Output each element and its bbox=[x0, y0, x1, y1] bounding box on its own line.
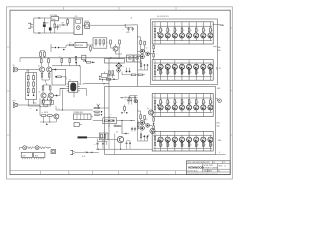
connector J5 input R jack bbox=[13, 103, 15, 108]
resistor aR3 bbox=[174, 26, 176, 28]
wire dD4 to bus bbox=[181, 135, 183, 137]
resistor dR7 bbox=[202, 142, 204, 148]
wire dD1 to bus bbox=[160, 135, 162, 137]
wire VR1 out b bbox=[33, 99, 35, 103]
resistor R30 bbox=[140, 41, 142, 45]
junction inner b bbox=[121, 97, 122, 98]
wire VR1 tap top a bbox=[27, 69, 29, 76]
svg-text:N2: N2 bbox=[219, 68, 221, 70]
LED cD8 bbox=[209, 104, 211, 105]
resistor R13 emitter bbox=[50, 98, 52, 99]
wire bm vertical bbox=[108, 135, 110, 149]
wire bD3 to bus bbox=[174, 63, 176, 64]
wire mid rail 2 bbox=[52, 65, 80, 67]
svg-text:IC4: IC4 bbox=[110, 114, 112, 116]
wire R57 stub bbox=[124, 105, 126, 107]
wire bD7 to bus bbox=[202, 63, 204, 64]
wire bD1 to bus bbox=[160, 63, 162, 64]
LED cD3 bbox=[174, 104, 176, 105]
resistor R57 bbox=[124, 107, 126, 111]
svg-text:IN L: IN L bbox=[13, 65, 16, 67]
connector J3 pin circle bbox=[86, 24, 89, 27]
cathode bus band C bbox=[153, 112, 212, 114]
svg-text:CN1: CN1 bbox=[75, 16, 78, 18]
capacitor C36 bbox=[55, 47, 57, 49]
wire band C top stub 4 bbox=[181, 94, 183, 99]
resistor aR5 bbox=[188, 26, 190, 28]
connector J4 input L jack bbox=[13, 67, 15, 72]
revision strip divider 2 bbox=[68, 171, 70, 175]
LED bD5 bbox=[188, 68, 190, 71]
capacitor C14 bbox=[134, 127, 136, 128]
LED dD5 bbox=[188, 141, 190, 143]
resistor dR3 bbox=[174, 142, 176, 148]
wire CN3 bbox=[215, 97, 217, 99]
capacitor C29 bbox=[144, 64, 146, 66]
capacitor C24 bbox=[92, 62, 94, 64]
wire B2 stub bbox=[104, 72, 106, 74]
capacitor dC1 bbox=[157, 140, 159, 142]
capacitor C18 bbox=[129, 141, 131, 143]
resistor R6 bbox=[48, 58, 50, 59]
frame zone tick left 1 bbox=[7, 46, 10, 48]
LED cD7 bbox=[202, 104, 204, 105]
LED dD1 bbox=[160, 141, 162, 143]
wire rail x122 bbox=[121, 121, 123, 134]
resistor aR1 bbox=[160, 26, 162, 28]
small block TB2 bbox=[74, 123, 79, 127]
wire band D bottom stub 1 bbox=[160, 148, 162, 151]
capacitor C27 bbox=[127, 98, 129, 100]
LED aD4 bbox=[181, 32, 183, 33]
svg-text:IC2: IC2 bbox=[69, 80, 71, 82]
wire caps row bbox=[51, 47, 55, 49]
junction bm3 bbox=[120, 126, 121, 127]
resistor R11 bbox=[49, 85, 51, 86]
wire VR2 down bbox=[83, 60, 85, 62]
wire Q5 collector bbox=[115, 44, 117, 46]
wire bD5 to bus bbox=[188, 63, 190, 64]
junction bus node 1 bbox=[110, 57, 111, 58]
wire driver2 c bbox=[149, 124, 152, 126]
resistor R42 bbox=[153, 118, 155, 121]
wire inner mid bbox=[120, 97, 137, 99]
wire dD6 to bus bbox=[195, 135, 197, 137]
svg-text:E: E bbox=[219, 152, 220, 154]
wire IC2 in bbox=[60, 88, 67, 90]
capacitor C12b dot bbox=[101, 114, 102, 115]
op-amp IC2 DIP package outline bbox=[69, 81, 78, 92]
relay K2 box bbox=[134, 55, 140, 62]
connector J2 inner detail bbox=[76, 20, 81, 24]
resistor R33 bbox=[144, 116, 146, 120]
LED bD8 bbox=[209, 68, 211, 71]
svg-text:POWER UNIT: POWER UNIT bbox=[74, 112, 83, 114]
lamp PL2 bbox=[35, 146, 39, 150]
resistor R53 bbox=[86, 62, 90, 64]
trim block VR2 bbox=[82, 55, 86, 60]
wire cD4 to bus bbox=[181, 110, 183, 113]
LED bD2 bbox=[167, 68, 169, 71]
wire cD1 to bus bbox=[160, 110, 162, 113]
wire bus drop left bbox=[19, 58, 21, 62]
transistor Q10 bbox=[140, 49, 144, 53]
transistor Q13 bbox=[140, 126, 144, 130]
resistor R21 bbox=[104, 120, 108, 122]
LED aD6 bbox=[195, 32, 197, 33]
resistor R16 bbox=[103, 40, 105, 44]
wire rail x137 bbox=[136, 25, 138, 87]
svg-text:LED-: LED- bbox=[218, 50, 222, 52]
wire emitter join 1 bbox=[42, 79, 49, 81]
resistor bR7 bbox=[202, 70, 204, 77]
wire gnd drop b bbox=[102, 147, 104, 149]
svg-text:R25: R25 bbox=[140, 124, 143, 126]
svg-text:MODEL LM-80: MODEL LM-80 bbox=[204, 165, 213, 167]
capacitor C41 bbox=[36, 109, 38, 111]
wire driver1 low bbox=[140, 60, 142, 63]
op-amp IC2 body bbox=[70, 83, 76, 92]
wire R34 join bbox=[40, 121, 56, 123]
wire inner top bbox=[101, 78, 119, 80]
resistor dR8 bbox=[209, 142, 211, 148]
capacitor C11 bbox=[134, 96, 136, 97]
wire band D bottom stub 3 bbox=[174, 148, 176, 151]
title block column line 3 bbox=[217, 164, 219, 173]
dark component bar bbox=[78, 136, 88, 138]
resistor R43 bbox=[153, 126, 155, 129]
svg-text:D5: D5 bbox=[123, 66, 125, 68]
resistor dR2 bbox=[167, 142, 169, 148]
transistor Q2 bbox=[47, 67, 52, 72]
wire IC2 out bbox=[82, 83, 83, 85]
wire aD2 to bus bbox=[167, 38, 169, 41]
resistor R15 bbox=[99, 40, 101, 44]
transistor Q15 bare bbox=[97, 104, 100, 109]
transistor Q7 bbox=[150, 128, 155, 133]
LED dD7 bbox=[202, 141, 204, 143]
resistor RV2a bbox=[27, 82, 29, 86]
capacitor cC1 bbox=[157, 104, 159, 106]
wire collector bus 2 bbox=[43, 84, 50, 86]
cathode bus band D bbox=[153, 134, 212, 136]
wire gnd drop a bbox=[97, 147, 99, 149]
svg-text:Q1: Q1 bbox=[38, 66, 40, 68]
diode D13 bbox=[125, 133, 126, 134]
wire caps top bbox=[130, 95, 138, 97]
resistor R61 bbox=[40, 52, 42, 56]
resistor cR3 bbox=[174, 98, 176, 100]
junction lower node bbox=[121, 120, 122, 121]
wire power bottom rail bbox=[34, 32, 74, 34]
wire VR1 internal b bbox=[33, 80, 35, 82]
resistor dR9 bbox=[154, 137, 156, 140]
capacitor C30 bbox=[147, 64, 149, 66]
resistor R19 bbox=[131, 74, 136, 76]
resistor R55 bbox=[112, 71, 114, 75]
wire R54 R55 join bbox=[108, 74, 115, 76]
resistor bR9 bbox=[154, 65, 156, 68]
svg-text:1/1: 1/1 bbox=[224, 162, 226, 164]
resistor dR6 bbox=[195, 142, 197, 148]
wire band C left column bbox=[154, 94, 156, 101]
transistor Q8 bbox=[117, 136, 123, 142]
wire cap branch bbox=[124, 25, 126, 27]
resistor R25 bbox=[137, 123, 139, 127]
resistor bR4 bbox=[181, 70, 183, 77]
svg-text:Q1: Q1 bbox=[146, 48, 148, 50]
resistor R7 emitter bbox=[41, 72, 43, 73]
svg-text:Q8: Q8 bbox=[116, 132, 118, 134]
lamp wire chain bbox=[19, 147, 23, 149]
wire aD3 to bus bbox=[174, 38, 176, 41]
resistor cR6 bbox=[195, 98, 197, 100]
wire interband AB bbox=[153, 44, 155, 46]
wire driver2 d bbox=[137, 122, 140, 124]
wire band B left column bbox=[154, 60, 156, 66]
wire band A stub 5 bbox=[188, 41, 190, 44]
wire band B bottom stub 2 bbox=[167, 77, 169, 80]
connector J1 AC input bbox=[28, 23, 31, 28]
LED aD5 bbox=[188, 32, 190, 33]
display board outline band B bbox=[152, 60, 213, 80]
wire caps C17 C18 top bbox=[127, 140, 131, 142]
title block outline bbox=[186, 161, 230, 175]
resistor R22 bbox=[110, 120, 114, 122]
display unit 1 enclosure outline bbox=[151, 19, 218, 85]
resistor bR3 bbox=[174, 70, 176, 77]
wire band D feed bbox=[139, 148, 153, 150]
resistor R14 bbox=[95, 40, 97, 44]
wire net flag LED1 bbox=[213, 46, 216, 48]
title block row line 3 bbox=[186, 171, 230, 173]
svg-text:R58: R58 bbox=[114, 123, 117, 125]
capacitor C43 bbox=[99, 78, 101, 80]
resistor R60 bbox=[69, 44, 73, 46]
wire driver2 low c bbox=[147, 137, 149, 141]
capacitor C7 bbox=[52, 69, 56, 71]
revision strip divider 3 bbox=[91, 171, 93, 175]
wire R61 R62 bottom bbox=[40, 56, 42, 57]
wire top supply bus bbox=[20, 57, 137, 59]
cathode bus band B bbox=[153, 62, 212, 64]
capacitor C26 bbox=[129, 71, 131, 73]
svg-text:IN: IN bbox=[153, 24, 154, 26]
wire band D bottom stub 7 bbox=[202, 148, 204, 151]
wire aD5 to bus bbox=[188, 38, 190, 41]
svg-text:C27: C27 bbox=[125, 96, 128, 98]
anode bus band A bbox=[153, 25, 212, 27]
resistor R32 bbox=[140, 115, 142, 119]
frame zone tick top 3 bbox=[175, 7, 177, 10]
resistor aR9 bbox=[154, 28, 156, 31]
sub box 2 outline bbox=[42, 100, 53, 104]
switch block S2 pins bbox=[34, 158, 36, 160]
capacitor C2 electrolytic bbox=[49, 21, 51, 28]
wire cD8 to bus bbox=[209, 110, 211, 113]
wire band C top stub 7 bbox=[202, 94, 204, 99]
capacitor C9 bbox=[53, 95, 56, 97]
wire Q4 output bbox=[57, 95, 61, 97]
capacitor CV2 bbox=[33, 95, 35, 97]
svg-text:Q3: Q3 bbox=[39, 92, 41, 94]
junction bm1 bbox=[108, 120, 109, 121]
svg-text:B+ B-: B+ B- bbox=[82, 156, 86, 158]
resistor R12 emitter bbox=[43, 98, 45, 99]
wire band C top stub 2 bbox=[167, 94, 169, 99]
display unit 2 enclosure outline bbox=[105, 86, 216, 154]
resistor RV2b bbox=[33, 82, 35, 86]
wire band A top stub 7 bbox=[202, 22, 204, 26]
resistor aR6 bbox=[195, 26, 197, 28]
resistor R23b bbox=[95, 114, 99, 116]
wire x119 drop bbox=[118, 46, 120, 58]
svg-text:RY1: RY1 bbox=[127, 55, 130, 57]
frame zone tick right 3 bbox=[230, 134, 232, 136]
capacitor C13 bbox=[131, 127, 133, 128]
svg-text:R17: R17 bbox=[106, 42, 109, 44]
wire to R34 row bbox=[39, 106, 41, 116]
anode bus band C bbox=[153, 97, 212, 99]
transistor Q3 bbox=[41, 93, 46, 98]
switch block S2 bbox=[34, 152, 45, 157]
wire band B bottom stub 7 bbox=[202, 77, 204, 80]
capacitor C35 bbox=[46, 124, 48, 126]
diode D3 SR bbox=[59, 24, 63, 26]
svg-text:LED-: LED- bbox=[216, 126, 220, 128]
resistor R62 bbox=[44, 52, 46, 56]
svg-text:IN: IN bbox=[153, 96, 154, 98]
wire R60 to IC3 bbox=[66, 44, 69, 46]
diode D12 bbox=[113, 79, 115, 81]
resistor cR2 bbox=[167, 98, 169, 100]
wire band A top stub 6 bbox=[195, 22, 197, 26]
wire bD6 to bus bbox=[195, 63, 197, 64]
wire band A left column bbox=[154, 22, 156, 29]
transistor Q11 bbox=[140, 55, 144, 59]
resistor cR7 bbox=[202, 98, 204, 100]
resistor R34 bbox=[41, 115, 46, 117]
LED bD4 bbox=[181, 68, 183, 71]
transistor Q12 bbox=[140, 121, 144, 125]
svg-text:D10: D10 bbox=[85, 150, 88, 152]
resistor dR5 bbox=[188, 142, 190, 148]
bias box B2 bbox=[102, 74, 108, 78]
wire driver2 a bbox=[140, 119, 142, 121]
wire dD2 to bus bbox=[167, 135, 169, 137]
filter block outline bbox=[93, 38, 107, 48]
bottom revision strip bbox=[10, 170, 186, 172]
wire driver1 low b bbox=[144, 66, 146, 70]
wire band D bottom stub 6 bbox=[195, 148, 197, 151]
transistor Q9 bbox=[54, 114, 59, 119]
title block column line 4 bbox=[222, 161, 224, 164]
LED aD7 bbox=[202, 32, 204, 33]
capacitor C23 bbox=[85, 60, 87, 62]
junction ch2 b bbox=[62, 109, 63, 110]
wire R34 R35 bbox=[40, 115, 41, 117]
resistor cR5 bbox=[188, 98, 190, 100]
resistor R44 bbox=[140, 63, 142, 67]
LED dD2 bbox=[167, 141, 169, 143]
wire Q5 emitter bbox=[115, 51, 117, 54]
capacitor C5 bbox=[132, 27, 134, 28]
bias block outline bbox=[99, 133, 108, 140]
resistor bR8 bbox=[209, 70, 211, 77]
resistor R10 bbox=[42, 85, 44, 86]
wire driver2 b bbox=[144, 119, 146, 123]
wire cD6 to bus bbox=[195, 110, 197, 113]
resistor R54 bbox=[109, 71, 111, 75]
svg-text:7806: 7806 bbox=[52, 19, 56, 21]
diode D2 bbox=[39, 32, 40, 33]
wire band D stub 1 bbox=[160, 131, 162, 135]
junction bm2 bbox=[108, 125, 109, 126]
wire driver2 low b bbox=[144, 137, 146, 141]
diode D11 bbox=[88, 151, 91, 153]
capacitor C42 bbox=[99, 76, 101, 78]
wire rail x137 lower bbox=[136, 100, 138, 130]
wire band A top stub 3 bbox=[174, 22, 176, 26]
svg-text:R50: R50 bbox=[59, 56, 62, 58]
junction R34 bbox=[43, 122, 44, 123]
wire band A stub 7 bbox=[202, 41, 204, 44]
display board outline band C bbox=[152, 94, 213, 117]
wire cD5 to bus bbox=[188, 110, 190, 113]
resistor cR10 bbox=[154, 106, 156, 109]
transistor Q16 bbox=[134, 99, 138, 103]
relay K1 box bbox=[127, 55, 133, 62]
wire cD7 to bus bbox=[202, 110, 204, 113]
wire Q9 down bbox=[55, 119, 57, 122]
regulator IC3 box bbox=[75, 43, 87, 48]
wire band D left column bbox=[154, 131, 156, 136]
resistor R51 bbox=[69, 59, 71, 63]
capacitor CV1 bbox=[27, 95, 29, 97]
resistor R8 emitter bbox=[48, 72, 50, 73]
LED bD3 bbox=[174, 68, 176, 71]
resistor cR4 bbox=[181, 98, 183, 100]
wire stack bbox=[93, 107, 95, 109]
frame zone tick right 2 bbox=[230, 90, 232, 92]
wire R34 drops bbox=[43, 116, 45, 122]
connector J2 box bbox=[74, 18, 83, 35]
resistor R18 bbox=[119, 40, 121, 44]
wire box2 bottom right bbox=[215, 153, 225, 155]
lamp PL1 bbox=[23, 146, 27, 150]
wire bm vertical 2 bbox=[114, 134, 116, 155]
revision strip divider 5 bbox=[146, 171, 148, 175]
wire mid join c bbox=[55, 121, 57, 124]
LED aD3 bbox=[174, 32, 176, 33]
svg-text:Q7: Q7 bbox=[148, 135, 150, 137]
wire band A top stub 1 bbox=[160, 22, 162, 26]
diode D9 bbox=[113, 120, 115, 122]
svg-text:R60: R60 bbox=[69, 42, 72, 44]
LED dD8 bbox=[209, 141, 211, 143]
wire lamp chain right bbox=[48, 147, 51, 149]
resistor dR1 bbox=[160, 142, 162, 148]
display board outline band D bbox=[152, 131, 213, 151]
wire band D bottom stub 8 bbox=[209, 148, 211, 151]
wire driver1 d bbox=[137, 50, 140, 52]
sheet inner border frame bbox=[10, 10, 230, 174]
svg-text:Q5: Q5 bbox=[119, 47, 121, 49]
title block column line 1 bbox=[202, 164, 204, 173]
title block column line 5 bbox=[207, 169, 209, 172]
wire R53 right bbox=[91, 61, 95, 63]
revision strip divider 6 bbox=[175, 171, 177, 175]
